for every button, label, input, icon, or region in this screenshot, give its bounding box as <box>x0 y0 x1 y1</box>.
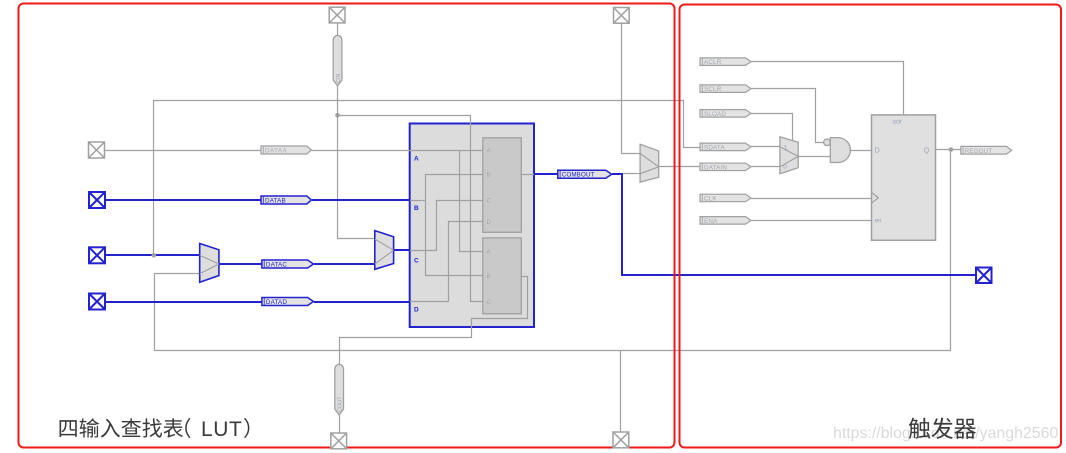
wire: mux M1 output to DATAC label (blue) <box>219 263 262 265</box>
wire: mux M4 output to AND gate <box>799 156 831 158</box>
svg-text:DATAA: DATAA <box>265 147 287 154</box>
wire: CLK net <box>751 198 872 200</box>
svg-text:A: A <box>414 156 419 163</box>
wire: SCLR net <box>751 89 824 143</box>
port label: DATAD <box>262 298 314 306</box>
svg-text:1: 1 <box>784 145 788 152</box>
port label: DATAB <box>261 196 312 204</box>
svg-text:B: B <box>414 205 419 212</box>
port label: DATAA <box>261 146 312 154</box>
pin symbol: CIN vertical pin <box>333 35 342 85</box>
svg-text:C: C <box>487 198 492 204</box>
svg-text:COUT: COUT <box>338 396 344 412</box>
io pin: COUT bottom crossed box <box>331 433 347 449</box>
node: feedback junction on DATAC line <box>152 253 157 258</box>
io pin: top crossed box #2 <box>614 8 630 24</box>
LUT lower table <box>483 238 522 314</box>
port label: REGOUT <box>961 146 1012 155</box>
wire: DATAB input net (blue) <box>105 199 261 201</box>
svg-text:en: en <box>875 218 882 224</box>
wire: DATAC pin to mux M1 (blue) <box>105 254 200 256</box>
wire: carry out path from lower table to COUT pin <box>340 277 528 365</box>
mux M2 (C input select, blue) <box>375 231 394 270</box>
caption: flip-flop section "触发器" <box>909 418 976 439</box>
wire: COMBOUT net (blue) <box>534 173 558 175</box>
port label: ACLR <box>700 58 751 66</box>
svg-text:A: A <box>487 148 491 154</box>
wire: bottom IO#2 stub <box>620 351 622 433</box>
io pin: bottom crossed box #2 <box>613 432 629 448</box>
svg-text:ENA: ENA <box>704 218 718 225</box>
wire: LUT result to border (gray segment) <box>522 174 535 176</box>
svg-text:D: D <box>414 306 419 313</box>
caption: LUT section "四输入查找表（LUT）" <box>60 418 250 441</box>
svg-text:CIN: CIN <box>336 74 342 84</box>
wire: SLOAD net <box>751 114 793 141</box>
svg-text:A: A <box>487 250 491 256</box>
svg-text:DATAIN: DATAIN <box>704 164 727 171</box>
svg-text:SCLR: SCLR <box>704 86 722 93</box>
io pin: DATAD crossed box (blue) <box>89 294 105 310</box>
io pin: CIN top crossed box <box>329 7 345 23</box>
mux M1 (DATAC/feedback, blue) <box>200 244 219 283</box>
node: CIN branch junction <box>335 113 340 118</box>
block frame: flip-flop section (red) <box>680 5 1062 448</box>
io pin: DATAA crossed box (gray) <box>89 142 105 158</box>
flip-flop U2: DFF block <box>872 115 936 240</box>
wire: Q output to REGOUT <box>936 149 961 151</box>
svg-text:Q: Q <box>924 147 930 154</box>
svg-text:C: C <box>414 258 419 265</box>
wire: combout tap to mux M3 lower input <box>622 173 641 175</box>
wire: mux M3 output to DATAIN <box>659 166 701 168</box>
svg-text:B: B <box>487 274 491 280</box>
svg-text:B: B <box>487 173 491 179</box>
wire: CIN pin to carry chain <box>337 23 339 36</box>
wire: register feedback bottom (loop lower path) <box>155 150 951 351</box>
svg-text:REGOUT: REGOUT <box>965 148 993 155</box>
port label: SDATA <box>700 143 751 151</box>
svg-text:COMBOUT: COMBOUT <box>562 172 595 179</box>
wire: DATAC label to mux M2 (blue) <box>314 263 375 265</box>
svg-text:DATAB: DATAB <box>265 197 286 204</box>
wire: ENA net <box>751 220 872 222</box>
wire: LUT internal net B fanout <box>410 200 426 202</box>
svg-text:SDATA: SDATA <box>704 144 725 151</box>
io pin: DATAC crossed box (blue) <box>89 247 105 263</box>
port label: COMBOUT <box>558 170 612 178</box>
wire: CIN branch to mux M2 <box>338 116 375 239</box>
mux M3 (DATAIN select, gray) <box>640 144 659 182</box>
svg-text:0: 0 <box>783 163 787 170</box>
wire: mux M2 output to LUT pin C (blue) <box>394 249 410 251</box>
wire: SDATA to mux M4 input 1 <box>751 146 780 148</box>
pin symbol: COUT vertical pin <box>335 364 344 415</box>
wire: LUT internal net D riser <box>410 222 484 302</box>
wire: AND gate output to D <box>851 150 872 152</box>
wire: DATAA input net <box>105 150 261 152</box>
svg-text:D: D <box>875 147 880 154</box>
port label: CLK <box>700 194 751 202</box>
svg-text:DATAD: DATAD <box>266 299 287 306</box>
port label: DATAC <box>262 260 314 268</box>
pin: clock edge triangle <box>872 192 879 203</box>
block frame: LUT section (red) <box>19 4 675 448</box>
port label: SLOAD <box>700 110 751 118</box>
wire: DATAIN to mux M4 input 0 <box>751 166 780 168</box>
svg-text:ACLR: ACLR <box>704 59 722 66</box>
wire: DATAD input net (blue) <box>105 301 262 303</box>
port label: SCLR <box>700 85 751 93</box>
svg-text:SLOAD: SLOAD <box>704 111 726 118</box>
node: Q feedback junction <box>949 147 954 152</box>
wire: ACLR net <box>751 62 904 115</box>
svg-text:aclr: aclr <box>893 120 903 126</box>
svg-text:DATAC: DATAC <box>266 261 287 268</box>
gate: AND with inverted input (sclr) <box>824 138 851 163</box>
port label: DATAIN <box>700 163 751 171</box>
svg-text:LUT: LUT <box>201 418 242 441</box>
wire: register feedback top (Q loop upper path to SDATA) <box>154 101 701 256</box>
LUT U1: outer block body <box>410 124 534 328</box>
wire: LUT internal net A branch to lower table <box>460 151 484 252</box>
svg-text:CLK: CLK <box>704 196 717 203</box>
wire: top IO#2 down to mux M3 <box>622 23 641 154</box>
io pin: registered output crossed box (blue) <box>976 268 992 284</box>
svg-text:C: C <box>487 300 492 306</box>
svg-text:D: D <box>487 220 492 226</box>
io pin: DATAB crossed box (blue) <box>89 192 105 208</box>
LUT upper table <box>483 138 522 233</box>
wire: LUT internal net C riser <box>410 201 484 251</box>
port label: ENA <box>700 217 751 225</box>
mux M4 (sload select, gray) <box>780 137 798 174</box>
